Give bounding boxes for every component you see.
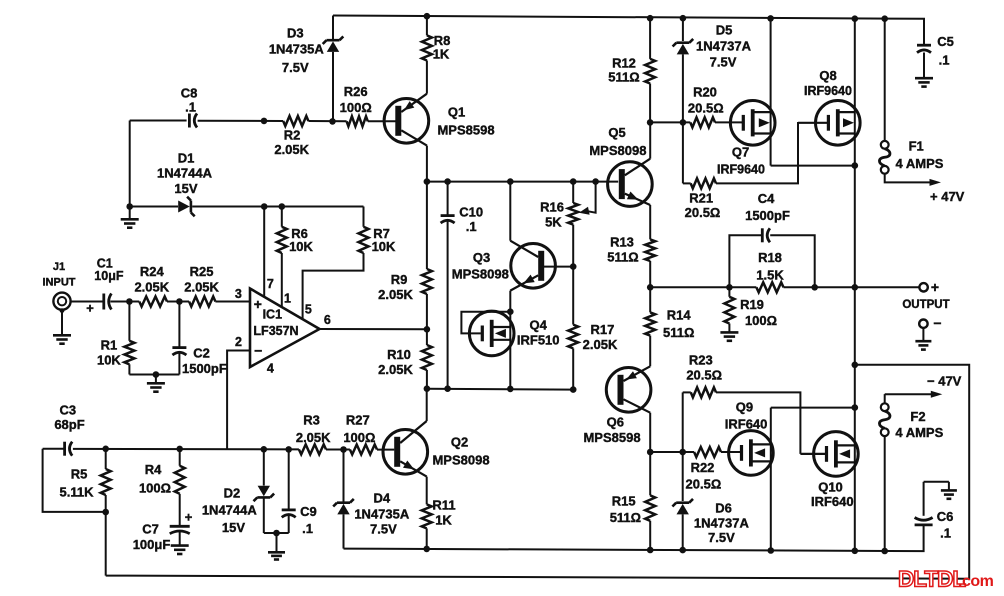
svg-text:+: + bbox=[254, 296, 262, 312]
svg-text:.com: .com bbox=[958, 573, 994, 590]
svg-text:1500pF: 1500pF bbox=[745, 208, 790, 223]
svg-text:R5: R5 bbox=[71, 467, 88, 482]
svg-text:MPS8098: MPS8098 bbox=[452, 267, 509, 282]
svg-text:1500pF: 1500pF bbox=[182, 361, 227, 376]
svg-text:D6: D6 bbox=[715, 501, 732, 516]
svg-text:2.05K: 2.05K bbox=[378, 362, 413, 377]
svg-text:R17: R17 bbox=[590, 322, 614, 337]
svg-text:C2: C2 bbox=[193, 346, 210, 361]
svg-text:R12: R12 bbox=[612, 56, 636, 71]
svg-text:Q8: Q8 bbox=[819, 68, 836, 83]
svg-text:Q7: Q7 bbox=[732, 145, 749, 160]
svg-text:R22: R22 bbox=[691, 460, 715, 475]
svg-text:D2: D2 bbox=[224, 486, 241, 501]
svg-text:10K: 10K bbox=[97, 353, 121, 368]
svg-text:+: + bbox=[931, 279, 939, 295]
svg-text:J1: J1 bbox=[53, 261, 65, 273]
svg-text:7.5V: 7.5V bbox=[708, 530, 735, 545]
svg-text:Q9: Q9 bbox=[736, 400, 753, 415]
svg-text:LF357N: LF357N bbox=[253, 324, 298, 338]
svg-text:1N4735A: 1N4735A bbox=[269, 42, 325, 57]
svg-text:R13: R13 bbox=[610, 235, 634, 250]
svg-text:20.5Ω: 20.5Ω bbox=[686, 477, 722, 492]
svg-text:C9: C9 bbox=[300, 504, 317, 519]
svg-text:Q5: Q5 bbox=[608, 125, 625, 140]
svg-text:R15: R15 bbox=[612, 494, 636, 509]
svg-text:D3: D3 bbox=[287, 26, 304, 41]
svg-text:1N4735A: 1N4735A bbox=[354, 506, 410, 521]
svg-text:.1: .1 bbox=[302, 521, 313, 536]
svg-text:F2: F2 bbox=[910, 409, 925, 424]
svg-text:R9: R9 bbox=[391, 272, 408, 287]
svg-text:+ 47V: + 47V bbox=[930, 189, 965, 204]
svg-text:R1: R1 bbox=[101, 337, 118, 352]
svg-text:R8: R8 bbox=[434, 33, 451, 48]
svg-text:R16: R16 bbox=[540, 200, 564, 215]
svg-text:R14: R14 bbox=[667, 308, 692, 323]
svg-text:OUTPUT: OUTPUT bbox=[902, 299, 949, 311]
svg-text:D5: D5 bbox=[716, 23, 733, 38]
svg-text:2.05K: 2.05K bbox=[184, 279, 219, 294]
svg-text:10K: 10K bbox=[289, 239, 313, 254]
svg-text:R10: R10 bbox=[387, 347, 411, 362]
svg-text:4 AMPS: 4 AMPS bbox=[895, 425, 943, 440]
svg-text:15V: 15V bbox=[222, 520, 245, 535]
svg-text:Q2: Q2 bbox=[451, 434, 468, 449]
svg-text:100Ω: 100Ω bbox=[139, 481, 171, 496]
svg-text:2.05K: 2.05K bbox=[378, 287, 413, 302]
svg-text:MPS8098: MPS8098 bbox=[432, 453, 489, 468]
svg-text:R19: R19 bbox=[740, 297, 764, 312]
svg-text:R24: R24 bbox=[140, 264, 165, 279]
svg-text:1N4744A: 1N4744A bbox=[202, 503, 258, 518]
svg-text:Q3: Q3 bbox=[473, 250, 490, 265]
svg-text:R2: R2 bbox=[284, 127, 301, 142]
svg-text:C3: C3 bbox=[59, 402, 76, 417]
svg-text:1N4744A: 1N4744A bbox=[157, 166, 213, 181]
svg-text:−: − bbox=[254, 343, 262, 359]
svg-text:2.05K: 2.05K bbox=[134, 279, 169, 294]
svg-text:MPS8098: MPS8098 bbox=[589, 143, 646, 158]
svg-text:5: 5 bbox=[305, 303, 312, 317]
svg-text:5K: 5K bbox=[545, 214, 562, 229]
svg-text:4 AMPS: 4 AMPS bbox=[896, 156, 944, 171]
svg-text:5.11K: 5.11K bbox=[60, 485, 95, 500]
svg-text:511Ω: 511Ω bbox=[663, 325, 694, 340]
svg-text:100Ω: 100Ω bbox=[343, 430, 375, 445]
svg-text:100Ω: 100Ω bbox=[340, 100, 372, 115]
svg-text:R25: R25 bbox=[190, 264, 214, 279]
svg-text:1.5K: 1.5K bbox=[756, 268, 784, 283]
svg-text:IRF510: IRF510 bbox=[517, 333, 560, 348]
svg-text:R18: R18 bbox=[758, 250, 782, 265]
svg-text:C5: C5 bbox=[937, 34, 954, 49]
svg-text:20.5Ω: 20.5Ω bbox=[686, 368, 722, 383]
svg-text:1K: 1K bbox=[433, 47, 450, 62]
svg-text:4: 4 bbox=[267, 362, 274, 376]
svg-text:MPS8598: MPS8598 bbox=[437, 122, 494, 137]
svg-text:R11: R11 bbox=[432, 498, 455, 513]
svg-text:100Ω: 100Ω bbox=[745, 313, 777, 328]
svg-text:F1: F1 bbox=[909, 139, 924, 154]
svg-text:Q1: Q1 bbox=[448, 105, 465, 120]
svg-text:C10: C10 bbox=[459, 204, 483, 219]
svg-text:IRF640: IRF640 bbox=[811, 494, 854, 509]
svg-text:C6: C6 bbox=[937, 509, 954, 524]
svg-text:Q10: Q10 bbox=[818, 479, 843, 494]
svg-text:+: + bbox=[185, 509, 193, 524]
svg-text:Q4: Q4 bbox=[530, 318, 548, 333]
svg-text:10μF: 10μF bbox=[94, 269, 124, 283]
svg-text:R3: R3 bbox=[303, 412, 320, 427]
svg-text:C4: C4 bbox=[758, 191, 775, 206]
svg-text:INPUT: INPUT bbox=[43, 277, 76, 289]
svg-text:2: 2 bbox=[235, 335, 242, 349]
svg-text:R4: R4 bbox=[145, 462, 162, 477]
svg-text:R23: R23 bbox=[689, 353, 713, 368]
svg-text:7.5V: 7.5V bbox=[710, 55, 737, 70]
svg-text:20.5Ω: 20.5Ω bbox=[685, 205, 721, 220]
svg-text:7: 7 bbox=[267, 277, 274, 291]
svg-text:100μF: 100μF bbox=[133, 537, 171, 552]
svg-text:68pF: 68pF bbox=[54, 417, 84, 432]
svg-text:511Ω: 511Ω bbox=[610, 510, 641, 525]
svg-text:IRF640: IRF640 bbox=[725, 416, 768, 431]
svg-text:3: 3 bbox=[235, 287, 242, 301]
svg-text:1K: 1K bbox=[435, 513, 452, 528]
svg-text:511Ω: 511Ω bbox=[608, 70, 639, 85]
svg-text:.1: .1 bbox=[940, 526, 951, 541]
svg-text:20.5Ω: 20.5Ω bbox=[688, 101, 724, 116]
svg-text:MPS8598: MPS8598 bbox=[583, 430, 640, 445]
svg-text:2.05K: 2.05K bbox=[583, 337, 618, 352]
svg-text:+: + bbox=[86, 301, 94, 316]
svg-text:7.5V: 7.5V bbox=[370, 522, 397, 537]
svg-text:15V: 15V bbox=[174, 181, 197, 196]
svg-text:− 47V: − 47V bbox=[927, 374, 962, 389]
svg-text:.1: .1 bbox=[939, 52, 950, 67]
svg-text:2.05K: 2.05K bbox=[296, 430, 331, 445]
svg-text:IRF9640: IRF9640 bbox=[804, 84, 852, 98]
svg-text:R20: R20 bbox=[693, 85, 717, 100]
svg-text:511Ω: 511Ω bbox=[607, 249, 638, 264]
svg-text:Q6: Q6 bbox=[607, 415, 624, 430]
svg-text:R27: R27 bbox=[346, 412, 370, 427]
svg-text:D4: D4 bbox=[373, 491, 390, 506]
svg-text:2.05K: 2.05K bbox=[274, 142, 309, 157]
svg-text:.1: .1 bbox=[185, 99, 196, 114]
svg-text:IRF9640: IRF9640 bbox=[717, 163, 765, 177]
svg-text:R21: R21 bbox=[689, 190, 713, 205]
svg-text:D1: D1 bbox=[178, 151, 195, 166]
svg-text:−: − bbox=[933, 315, 941, 331]
svg-text:1N4737A: 1N4737A bbox=[694, 515, 750, 530]
svg-text:10K: 10K bbox=[372, 239, 396, 254]
svg-text:DLTDL: DLTDL bbox=[898, 567, 966, 592]
svg-text:7.5V: 7.5V bbox=[282, 60, 309, 75]
svg-text:R26: R26 bbox=[344, 84, 368, 99]
svg-text:1: 1 bbox=[284, 292, 291, 306]
svg-text:.1: .1 bbox=[466, 219, 477, 234]
svg-text:IC1: IC1 bbox=[263, 307, 283, 321]
svg-text:1N4737A: 1N4737A bbox=[696, 39, 752, 54]
svg-text:C7: C7 bbox=[142, 522, 159, 537]
svg-text:6: 6 bbox=[324, 313, 331, 327]
